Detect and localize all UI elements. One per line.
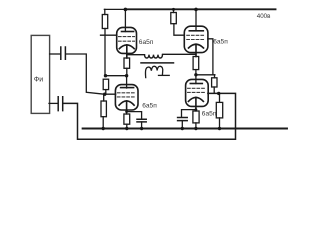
svg-text:6а5п: 6а5п (139, 39, 154, 46)
svg-text:6а5п: 6а5п (202, 111, 217, 118)
svg-text:6а5п: 6а5п (213, 38, 228, 45)
svg-text:Фи: Фи (34, 76, 43, 83)
svg-text:400в: 400в (257, 13, 271, 20)
svg-text:6а5п: 6а5п (142, 103, 157, 110)
